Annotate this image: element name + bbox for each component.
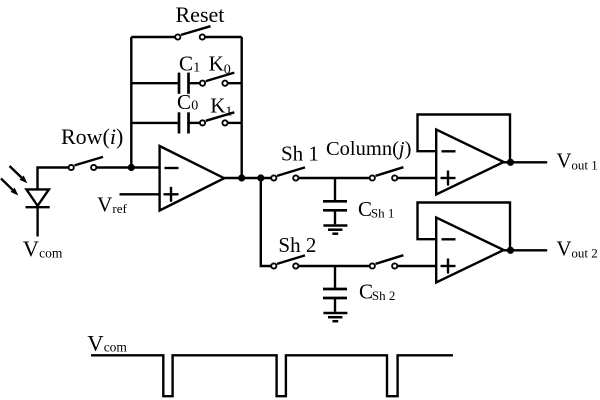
wire: Column switch row 2 to U3 non-inverting input xyxy=(398,265,437,267)
svg-text:Column(j): Column(j) xyxy=(326,138,411,160)
capacitor C_Sh2 with ground xyxy=(323,266,347,321)
junction node: output / Sh2 branch xyxy=(257,174,264,181)
wire: U2 output xyxy=(504,161,548,163)
svg-text:Sh 2: Sh 2 xyxy=(372,288,395,303)
label C_Sh2 xyxy=(359,279,395,303)
svg-text:K: K xyxy=(210,93,225,117)
svg-text:0: 0 xyxy=(224,63,231,78)
switch Column(j) xyxy=(370,167,404,180)
svg-text:V: V xyxy=(97,193,112,217)
op-amp U2 xyxy=(436,130,504,195)
label V_com (waveform) xyxy=(87,330,127,355)
svg-text:V: V xyxy=(556,149,571,173)
light arrows into photodiode xyxy=(1,166,27,196)
svg-text:V: V xyxy=(23,236,39,261)
svg-text:out 2: out 2 xyxy=(571,245,597,260)
switch Sh2 xyxy=(271,255,305,268)
waveform V_com trace xyxy=(91,355,453,396)
svg-text:Row(i): Row(i) xyxy=(61,124,123,149)
switch K0 xyxy=(189,73,242,86)
wire: Sh2 switch to Column switch row 2 xyxy=(299,265,370,267)
wire: Column switch to U2 non-inverting input xyxy=(398,177,437,179)
op-amp U3 xyxy=(436,218,504,283)
svg-text:out 1: out 1 xyxy=(571,157,597,172)
junction node: output / feedback xyxy=(238,174,245,181)
svg-text:V: V xyxy=(87,330,103,355)
wire: feedback top left segment xyxy=(131,36,175,38)
label V_ref xyxy=(97,193,127,217)
wire: C1 row left segment xyxy=(131,82,179,84)
label V_out 2 xyxy=(556,237,597,261)
switch Sh1 xyxy=(271,167,305,180)
svg-text:K: K xyxy=(209,51,224,75)
label V_com (photodiode) xyxy=(23,236,63,261)
wire: feedback right vertical xyxy=(240,37,242,178)
switch Reset xyxy=(175,26,210,39)
op-amp U1 xyxy=(160,146,225,211)
label C1 xyxy=(179,51,200,75)
svg-text:com: com xyxy=(104,340,128,355)
wire: V_ref to U1 non-inverting input xyxy=(120,193,160,195)
junction node: inverting input / feedback xyxy=(128,164,135,171)
label K1 xyxy=(210,93,232,119)
wire: feedback top right segment xyxy=(205,36,242,38)
wire: Sh1 switch to Column switch xyxy=(299,177,370,179)
label C0 xyxy=(177,90,198,114)
svg-text:Reset: Reset xyxy=(176,2,225,27)
svg-text:C: C xyxy=(177,90,191,114)
junction node: U2 output / feedback xyxy=(507,159,514,166)
capacitor C1 xyxy=(179,73,189,94)
wire: U2 feedback loop xyxy=(418,115,511,163)
svg-text:1: 1 xyxy=(193,60,200,75)
wire: U1 output row xyxy=(224,177,271,179)
svg-text:ref: ref xyxy=(112,201,127,216)
wire: feedback left vertical xyxy=(130,37,132,168)
wire: U3 output xyxy=(504,249,548,251)
svg-text:1: 1 xyxy=(225,104,232,119)
svg-text:0: 0 xyxy=(191,99,198,114)
photodiode D1 xyxy=(26,189,50,236)
wire: photodiode cathode up and right to Row switch xyxy=(38,168,69,191)
svg-text:V: V xyxy=(556,237,571,261)
label V_out 1 xyxy=(556,149,597,173)
switch Column(j) row 2 xyxy=(370,255,404,268)
capacitor C0 xyxy=(179,112,189,133)
svg-text:C: C xyxy=(179,51,193,75)
wire: branch from output node down to Sh2 row xyxy=(261,178,271,266)
svg-text:Sh 1: Sh 1 xyxy=(371,206,394,221)
label C_Sh1 xyxy=(358,197,394,221)
wire: U3 feedback loop xyxy=(418,203,511,251)
switch Row(i) xyxy=(69,157,103,170)
junction node: U3 output / feedback xyxy=(507,247,514,254)
svg-text:Sh 1: Sh 1 xyxy=(281,141,319,165)
label K0 xyxy=(209,51,231,77)
svg-text:com: com xyxy=(39,246,63,261)
svg-text:Sh 2: Sh 2 xyxy=(278,233,316,257)
capacitor C_Sh1 with ground xyxy=(323,178,347,234)
wire: C0 row left segment xyxy=(131,122,179,124)
wire: Row switch to U1 inverting input xyxy=(97,166,160,168)
switch K1 xyxy=(189,112,242,125)
